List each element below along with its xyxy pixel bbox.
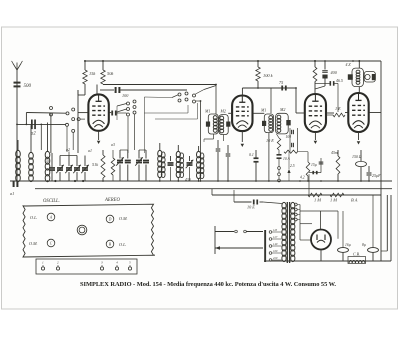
svg-text:100: 100 xyxy=(122,93,129,98)
svg-text:1 M: 1 M xyxy=(314,198,321,203)
svg-text:a2: a2 xyxy=(31,132,36,137)
svg-text:220: 220 xyxy=(273,256,278,260)
svg-text:M2: M2 xyxy=(279,107,285,112)
svg-text:400: 400 xyxy=(331,70,338,75)
svg-text:10 A: 10 A xyxy=(283,157,291,161)
svg-text:150 Ω: 150 Ω xyxy=(352,155,362,159)
svg-text:5: 5 xyxy=(129,261,131,265)
svg-text:O.M.: O.M. xyxy=(29,241,38,246)
svg-text:a3: a3 xyxy=(111,143,115,147)
svg-text:a1: a1 xyxy=(10,191,14,196)
svg-text:50: 50 xyxy=(46,159,50,163)
svg-text:15µ: 15µ xyxy=(311,163,317,167)
svg-text:110: 110 xyxy=(273,228,278,232)
svg-text:0.1: 0.1 xyxy=(249,153,254,157)
svg-text:C.B.: C.B. xyxy=(353,253,360,257)
svg-text:a1: a1 xyxy=(88,149,92,153)
svg-text:10 E: 10 E xyxy=(266,138,274,143)
svg-text:160: 160 xyxy=(273,249,278,253)
svg-text:AEREO: AEREO xyxy=(104,198,120,203)
svg-text:O.M.: O.M. xyxy=(119,216,128,221)
svg-text:O.L.: O.L. xyxy=(30,215,37,220)
svg-text:1 M: 1 M xyxy=(330,198,337,203)
svg-text:51k: 51k xyxy=(92,162,98,167)
svg-text:430: 430 xyxy=(185,178,191,182)
svg-text:16µ: 16µ xyxy=(345,243,351,247)
svg-text:10 E: 10 E xyxy=(247,205,255,210)
svg-text:100 k: 100 k xyxy=(263,73,274,78)
svg-text:140: 140 xyxy=(273,242,278,246)
svg-text:OSCILL.: OSCILL. xyxy=(43,199,60,204)
svg-text:8µ: 8µ xyxy=(362,243,366,247)
svg-text:1: 1 xyxy=(42,261,44,265)
svg-text:M2: M2 xyxy=(220,109,226,114)
svg-text:2.5: 2.5 xyxy=(290,164,295,168)
svg-text:2: 2 xyxy=(57,261,59,265)
svg-text:50k: 50k xyxy=(107,71,114,76)
svg-text:D: D xyxy=(108,218,112,222)
svg-text:O.L.: O.L. xyxy=(119,242,126,247)
svg-text:46.5: 46.5 xyxy=(336,79,343,83)
svg-text:100: 100 xyxy=(286,135,292,139)
svg-text:15k: 15k xyxy=(89,71,96,76)
svg-text:M1: M1 xyxy=(260,108,266,113)
svg-text:75: 75 xyxy=(279,80,283,85)
svg-text:1 E: 1 E xyxy=(335,106,341,111)
svg-text:a2: a2 xyxy=(66,148,70,152)
svg-text:M1: M1 xyxy=(204,109,210,114)
svg-text:4.2: 4.2 xyxy=(300,176,305,180)
svg-text:25µF: 25µF xyxy=(372,174,381,178)
svg-text:4 Z: 4 Z xyxy=(346,63,352,67)
svg-text:4: 4 xyxy=(116,261,118,265)
svg-text:SIMPLEX RADIO - Mod. 154 - Med: SIMPLEX RADIO - Mod. 154 - Media frequen… xyxy=(80,281,336,288)
svg-text:3: 3 xyxy=(101,261,103,265)
svg-text:127: 127 xyxy=(273,235,278,239)
svg-text:B A: B A xyxy=(351,198,358,203)
svg-text:45m: 45m xyxy=(331,151,338,155)
svg-text:500: 500 xyxy=(24,84,32,89)
